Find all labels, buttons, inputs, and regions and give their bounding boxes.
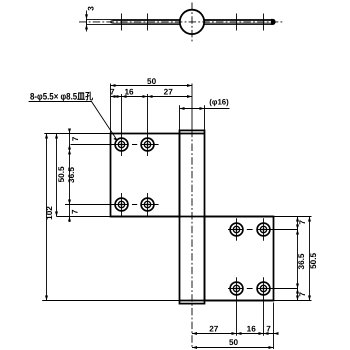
- svg-text:7: 7: [110, 87, 115, 96]
- svg-text:7: 7: [71, 136, 80, 141]
- svg-text:(φ16): (φ16): [209, 97, 229, 106]
- svg-text:16: 16: [124, 87, 134, 96]
- svg-text:16: 16: [247, 324, 257, 333]
- svg-text:3: 3: [87, 6, 96, 11]
- svg-text:7: 7: [298, 220, 307, 225]
- extension plate bottom-left (seam) to left: [57, 216, 111, 218]
- hole R4 (right plate bottom-right): [257, 282, 270, 295]
- top view vertical centerline: [191, 3, 193, 43]
- barrel centerline extension above: [191, 84, 193, 130]
- svg-text:7: 7: [71, 209, 80, 214]
- barrel top cap inner line: [180, 133, 205, 135]
- dimension 50 top: [111, 84, 193, 87]
- svg-text:36.5: 36.5: [297, 253, 306, 269]
- barrel bottom cap inner line: [180, 300, 274, 302]
- left leaf plate: [111, 134, 180, 217]
- svg-text:7: 7: [298, 292, 307, 297]
- top view hole tick 2: [147, 14, 149, 31]
- hole R1 (right plate top-left): [230, 223, 243, 236]
- top view knuckle circle: [180, 10, 204, 34]
- extension right plate bottom to right: [274, 300, 312, 302]
- extension seam to right: [274, 216, 312, 218]
- svg-text:8-φ5.5× φ8.5皿孔: 8-φ5.5× φ8.5皿孔: [30, 90, 94, 101]
- top view hole tick 1: [121, 14, 123, 31]
- svg-text:50: 50: [229, 338, 239, 347]
- barrel (knuckle): [180, 130, 205, 303]
- top view inner bar (chamfer lines): [111, 19, 276, 25]
- hole L2 (left plate top-right): [141, 138, 154, 151]
- hole L4 (left plate bottom-right): [141, 198, 154, 211]
- dimension 50.5 left line: [55, 134, 58, 217]
- column centerline L col1 lower: [121, 193, 123, 216]
- row centerline right plate row1: [228, 229, 298, 231]
- top view hole tick 4: [263, 14, 265, 31]
- dimension chain 7/36.5/7 left line: [68, 129, 71, 223]
- svg-text:50.5: 50.5: [309, 252, 318, 268]
- dimension chain 27/16/7 bottom line: [192, 332, 279, 335]
- dimension phi16 line: [180, 107, 230, 110]
- svg-text:50.5: 50.5: [57, 166, 66, 182]
- column centerline R col2 lower: [263, 277, 265, 336]
- top view horizontal centerline: [79, 21, 283, 23]
- extension right plate right edge down: [273, 303, 275, 350]
- hole L1 (left plate top-left): [115, 138, 128, 151]
- column centerline R col2 upper: [263, 218, 265, 240]
- dimension 3 line: [85, 11, 88, 32]
- right leaf plate: [205, 217, 274, 301]
- column centerline R col1 upper: [236, 218, 238, 240]
- dimension 102 line: [45, 134, 48, 301]
- dimension chain 7/36.5/7 right line: [296, 217, 299, 301]
- column centerline L col1 upper: [121, 94, 123, 156]
- hole L3 (left plate bottom-left): [115, 198, 128, 211]
- row centerline left plate row2: [65, 204, 159, 206]
- extension line plate left edge up: [110, 84, 112, 134]
- extension overall bottom to left: [42, 300, 179, 302]
- top view outer bar: [87, 19, 276, 24]
- row centerline right plate row2: [228, 288, 298, 290]
- extension lines phi16: [180, 105, 205, 129]
- extension plate top to left: [44, 133, 110, 135]
- svg-text:7: 7: [266, 324, 271, 333]
- row centerline left plate row1: [71, 144, 159, 146]
- svg-text:36.5: 36.5: [67, 167, 76, 183]
- top view hole tick 3: [236, 14, 238, 31]
- seam line across barrel: [111, 216, 274, 218]
- dimension 50 bottom line: [192, 346, 274, 349]
- column centerline R col1 lower: [236, 277, 238, 336]
- leader line: [29, 102, 118, 141]
- column centerline L col2 upper: [147, 94, 149, 156]
- hole R2 (right plate top-right): [257, 223, 270, 236]
- svg-text:27: 27: [164, 87, 174, 96]
- svg-text:102: 102: [45, 206, 54, 220]
- dimension 50.5 right line: [308, 217, 311, 301]
- hole R3 (right plate bottom-left): [230, 282, 243, 295]
- svg-text:50: 50: [147, 77, 157, 86]
- column centerline L col2 lower: [147, 193, 149, 216]
- svg-text:27: 27: [209, 324, 219, 333]
- dimension chain 7/16/27 top line: [111, 95, 193, 98]
- barrel vertical centerline: [191, 130, 193, 349]
